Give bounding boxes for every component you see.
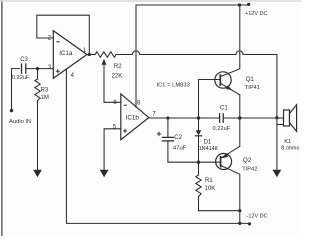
svg-text:Q2: Q2 <box>243 157 252 164</box>
svg-text:Audio IN: Audio IN <box>9 119 31 125</box>
svg-text:C1: C1 <box>220 106 228 112</box>
svg-text:22K: 22K <box>112 73 123 79</box>
svg-text:0.22uF: 0.22uF <box>12 75 30 81</box>
svg-text:R1: R1 <box>205 178 213 184</box>
svg-text:0.22uF: 0.22uF <box>213 126 231 132</box>
svg-text:-12V DC: -12V DC <box>247 213 268 219</box>
svg-text:+12V DC: +12V DC <box>245 11 267 17</box>
svg-text:TIP41: TIP41 <box>245 85 260 91</box>
svg-text:1N4148: 1N4148 <box>199 146 218 152</box>
svg-text:K1: K1 <box>284 139 291 145</box>
svg-text:C2: C2 <box>174 135 182 141</box>
svg-text:R2: R2 <box>114 64 122 70</box>
svg-text:Q1: Q1 <box>246 76 255 83</box>
svg-text:1M: 1M <box>41 95 49 101</box>
svg-text:IC1 = LM833: IC1 = LM833 <box>157 83 190 89</box>
svg-text:IC1a: IC1a <box>59 50 73 57</box>
svg-text:R3: R3 <box>41 87 49 93</box>
svg-text:D1: D1 <box>204 139 212 145</box>
svg-text:TIP42: TIP42 <box>242 166 257 172</box>
svg-text:10K: 10K <box>205 186 216 192</box>
svg-text:C3: C3 <box>20 57 28 63</box>
svg-text:8 ohms: 8 ohms <box>281 146 299 152</box>
svg-text:47uF: 47uF <box>173 145 187 151</box>
svg-text:IC1b: IC1b <box>126 114 140 121</box>
